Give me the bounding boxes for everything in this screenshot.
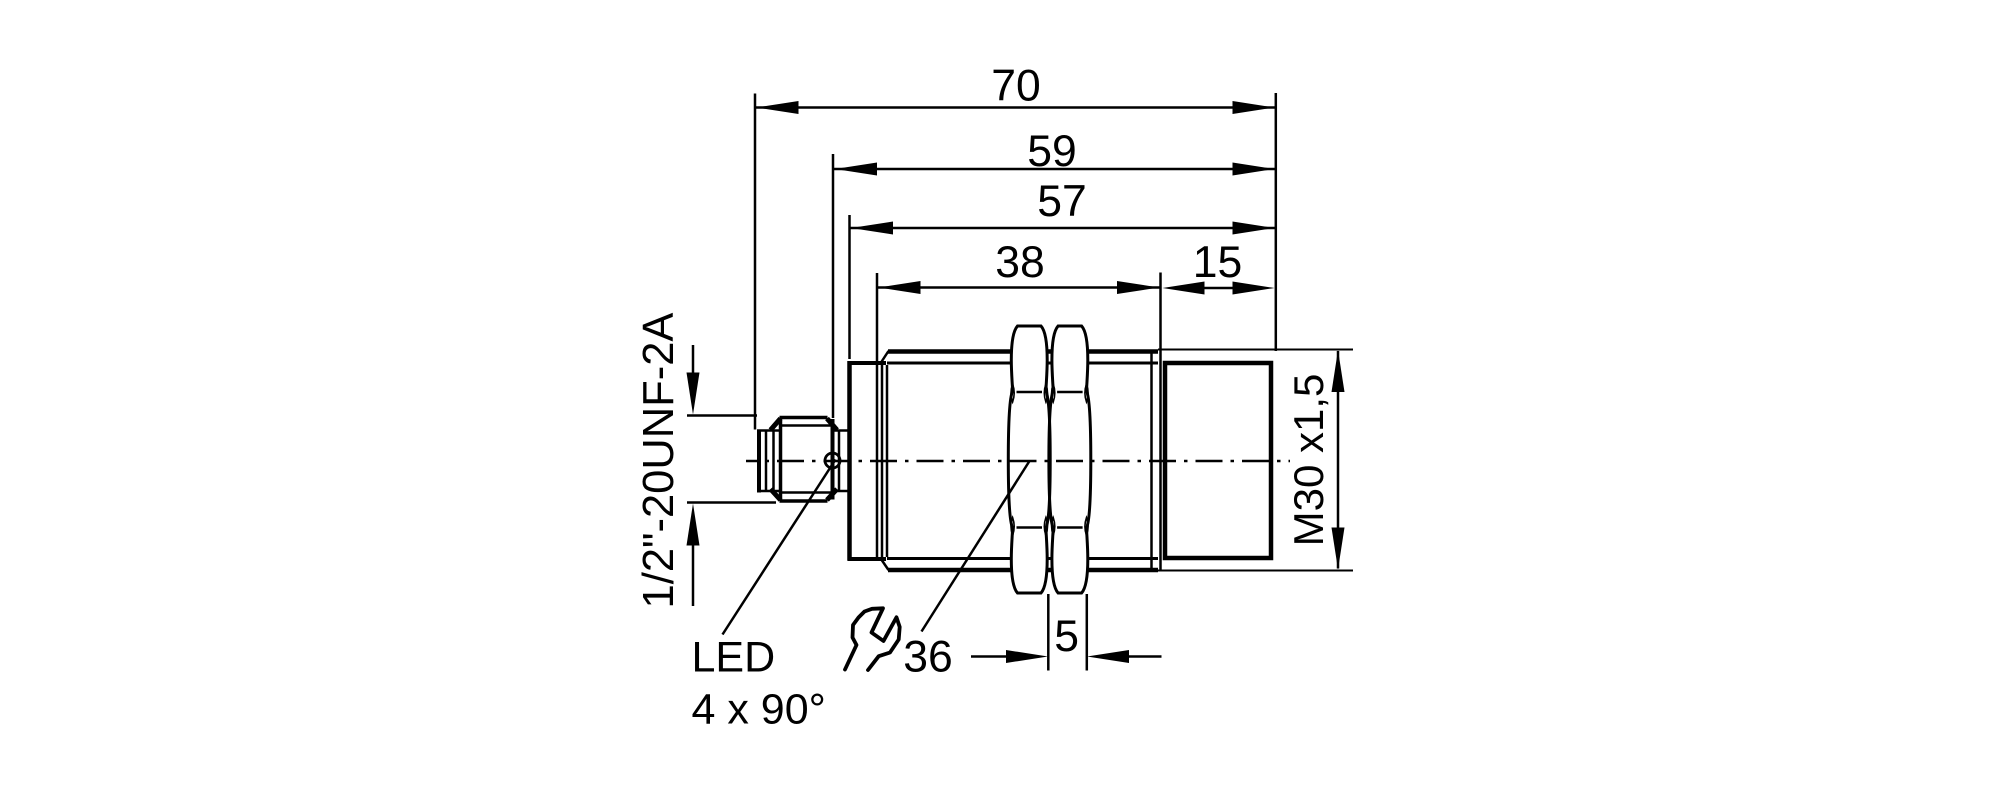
- svg-text:5: 5: [1054, 612, 1079, 661]
- wrench icon: [845, 608, 900, 670]
- body collar (left): [848, 361, 887, 561]
- lock nut 1: [1008, 326, 1050, 593]
- dimension 59: [834, 163, 1275, 176]
- housing end block (15mm section): [1165, 363, 1271, 558]
- lock nut 2 outline: [1049, 326, 1091, 593]
- svg-text:M30 x1,5: M30 x1,5: [1285, 374, 1332, 547]
- LED leader line: [723, 460, 836, 635]
- dimension 1/2"-20UNF-2A (vertical, arrows outside): [687, 345, 777, 606]
- center line (sensor axis): [746, 460, 1290, 463]
- lock nut 1 outline: [1008, 326, 1050, 593]
- dimension 70: [756, 101, 1275, 114]
- extension line hex right face (59): [832, 154, 835, 418]
- svg-text:70: 70: [991, 62, 1041, 111]
- svg-text:57: 57: [1037, 177, 1087, 226]
- svg-text:59: 59: [1027, 127, 1077, 176]
- svg-text:36: 36: [903, 633, 953, 682]
- dimension 15 (arrows outside): [1163, 282, 1275, 295]
- connector hex nut: [771, 418, 838, 502]
- dimension M30x1,5: [1158, 350, 1353, 571]
- connector thread cylinder 1/2-20UNF: [757, 430, 780, 493]
- svg-text:4 x 90°: 4 x 90°: [692, 686, 826, 734]
- extension line sensor right end (70/59/57): [1275, 93, 1278, 351]
- lock nut 2: [1049, 326, 1091, 593]
- svg-text:15: 15: [1193, 238, 1243, 287]
- extension line thread end (38/15): [1159, 273, 1162, 572]
- wrench size 36 leader line: [922, 461, 1030, 632]
- dimension 57: [851, 222, 1276, 235]
- thread end runout line: [1150, 354, 1153, 569]
- thread start runout lines: [881, 351, 889, 570]
- svg-text:1/2"-20UNF-2A: 1/2"-20UNF-2A: [635, 313, 683, 609]
- svg-text:38: 38: [995, 238, 1045, 287]
- dimension 38: [878, 281, 1160, 294]
- extension line sensor left end (70): [754, 94, 757, 430]
- M30 thread crest lines: [888, 352, 1158, 571]
- extension line body left face (57): [848, 215, 851, 359]
- dimension 5 (nut width): [971, 594, 1162, 671]
- connector neck: [833, 430, 849, 491]
- M30 thread root lines: [887, 363, 1158, 559]
- svg-text:LED: LED: [692, 634, 776, 682]
- LED indicator circle: [825, 453, 840, 468]
- extension line thread start (38): [876, 273, 879, 558]
